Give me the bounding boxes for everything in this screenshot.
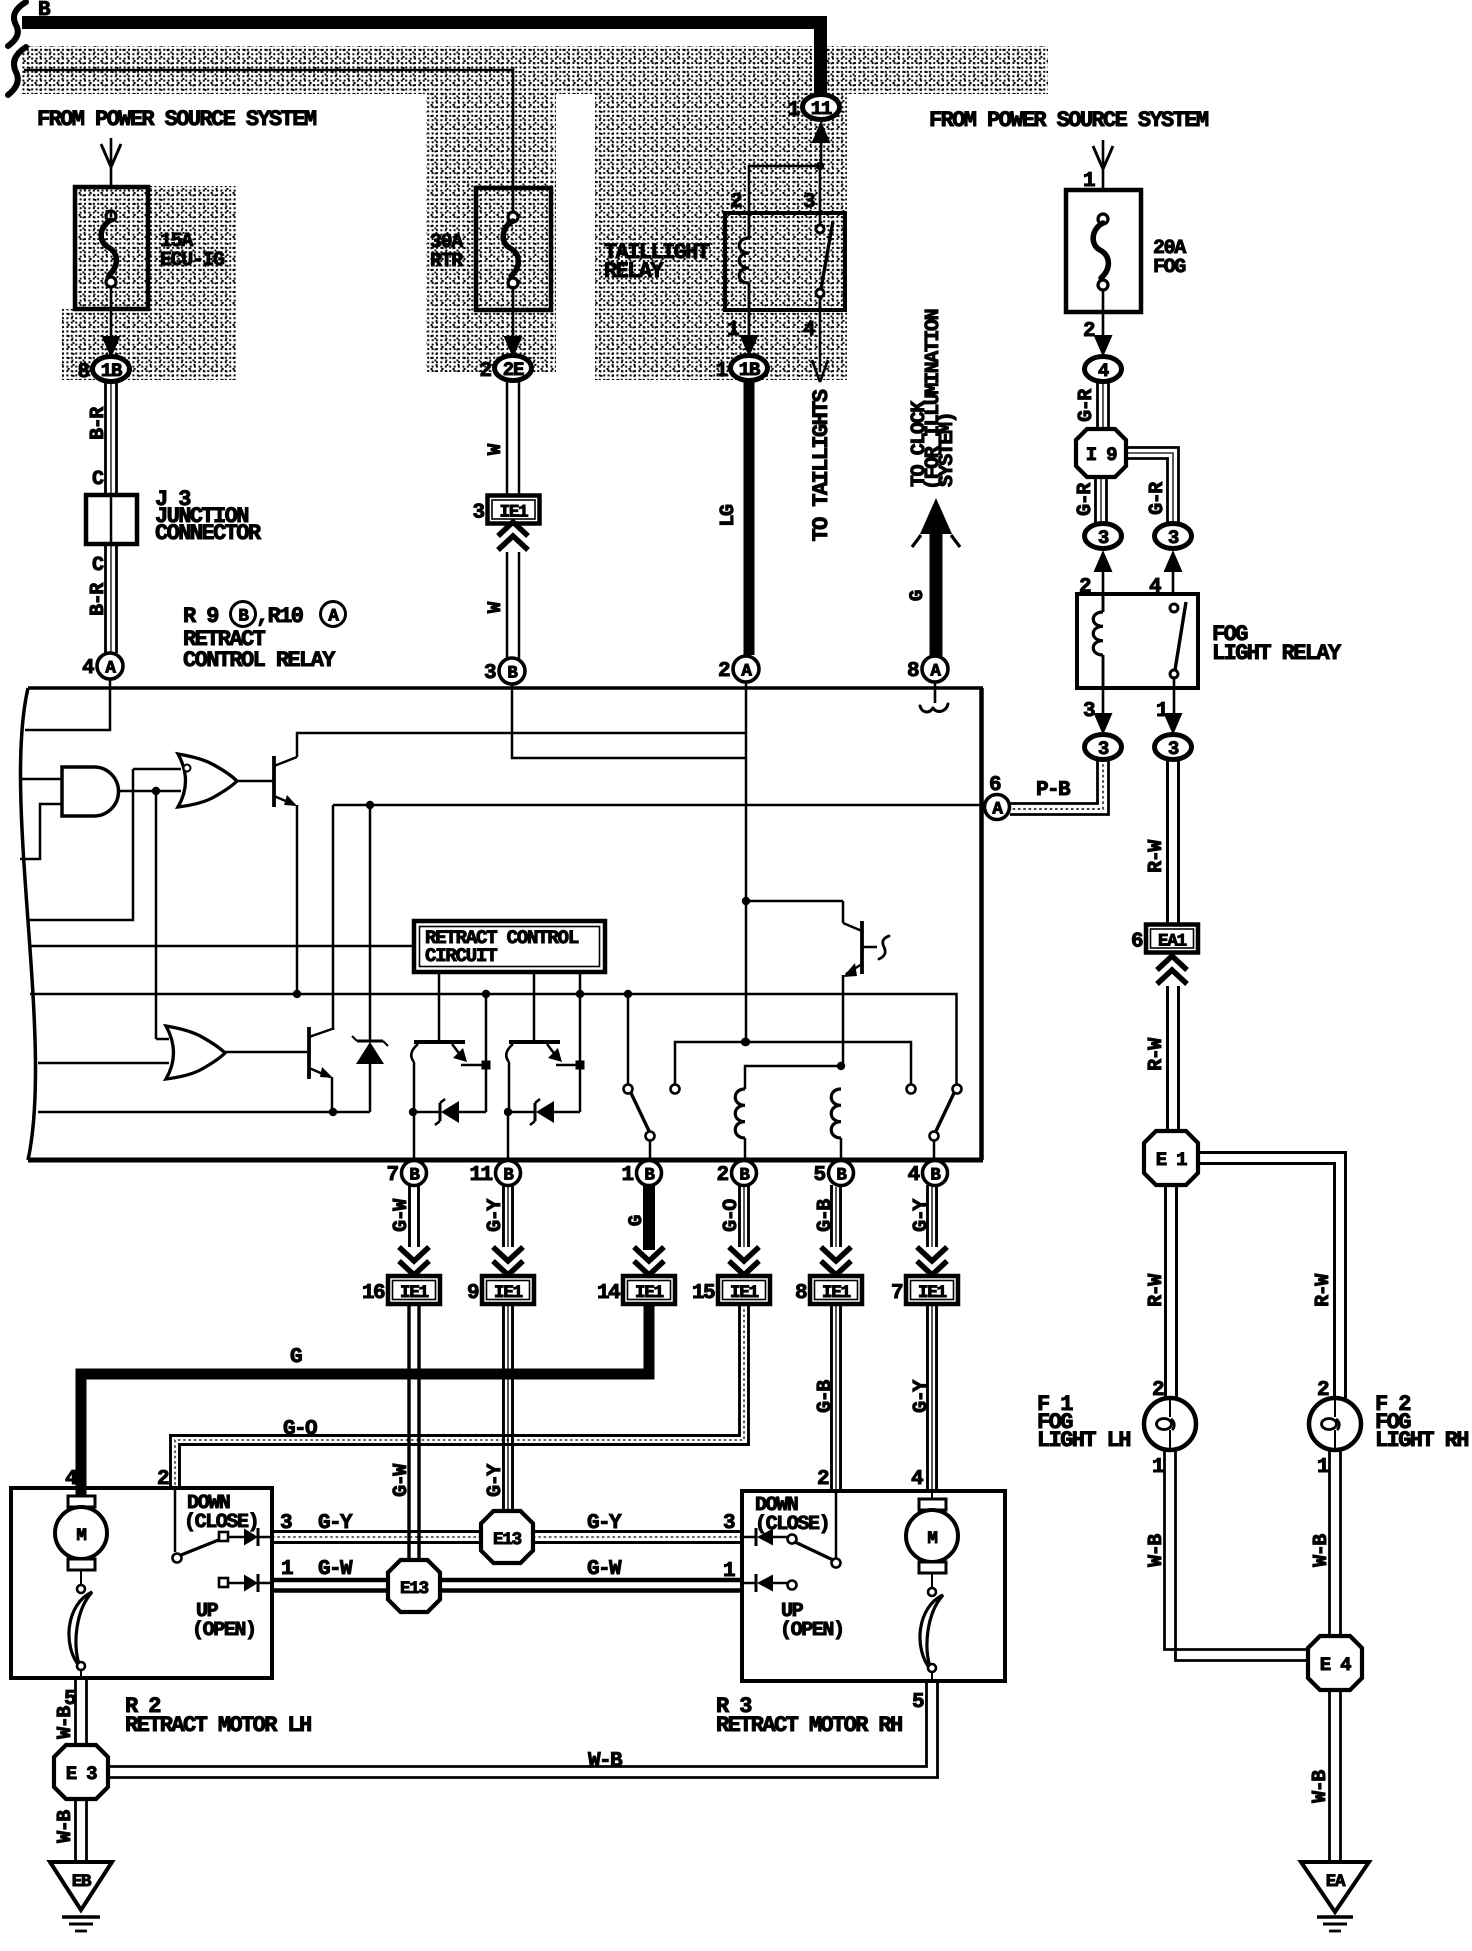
node taillight pin3 junction: [816, 162, 824, 170]
svg-text:LG: LG: [717, 504, 740, 527]
connector 16 IE1: [388, 1276, 440, 1304]
svg-text:E13: E13: [493, 1530, 522, 1550]
svg-text:W-B: W-B: [54, 1810, 77, 1843]
wire G-W IE1 to E13: [407, 1304, 410, 1560]
wire pin5 LH to E3: [74, 1678, 77, 1746]
wire to taillight relay coil pin 2: [749, 166, 820, 214]
wire R-W to fog light LH: [1164, 1185, 1167, 1398]
svg-text:4: 4: [803, 319, 815, 342]
node rail dot upper: [742, 897, 750, 905]
svg-text:LIGHT LH: LIGHT LH: [1037, 1428, 1130, 1453]
fog light relay box: [1077, 594, 1198, 688]
svg-text:EA: EA: [1326, 1872, 1346, 1892]
arrow up into connector 11: [812, 121, 831, 143]
svg-text:W: W: [484, 443, 506, 455]
svg-text:FROM POWER SOURCE SYSTEM: FROM POWER SOURCE SYSTEM: [929, 108, 1209, 133]
arrow up into connector 3 right: [1164, 550, 1183, 572]
motor LH position cam: [80, 1570, 82, 1585]
node coil rail dot: [837, 1062, 845, 1070]
svg-text:16: 16: [362, 1282, 385, 1305]
node bus dot cell1: [482, 990, 490, 998]
wire W-B fog RH to E4: [1328, 1450, 1331, 1636]
connector 9 IE1: [482, 1276, 534, 1304]
svg-text:2: 2: [817, 1468, 829, 1491]
transistor Q4 cell2: [509, 1040, 560, 1044]
svg-text:R-W: R-W: [1312, 1274, 1335, 1307]
wire rcc output 3: [579, 972, 582, 1065]
arrow into connector 4: [1094, 335, 1113, 357]
svg-text:IE1: IE1: [918, 1283, 947, 1303]
switch up open LH: [219, 1578, 228, 1587]
wire rcc left input: [30, 945, 414, 948]
svg-text:E 3: E 3: [66, 1763, 97, 1785]
connector 15 IE1: [718, 1276, 770, 1304]
relay coil 2: [831, 1089, 841, 1138]
ground EB: [50, 1862, 112, 1910]
wire B thick bus to connector 11: [22, 23, 821, 94]
wire G-Y to motor RH pin4: [926, 1304, 929, 1491]
wire rcc output 1: [438, 972, 441, 1040]
svg-text:2E: 2E: [503, 359, 524, 381]
wire G-Y IE1 to E13: [502, 1304, 505, 1512]
wire fuse 20A to connector 4: [1102, 289, 1105, 337]
wire thin power feed to 30A fuse: [24, 70, 513, 212]
svg-text:5: 5: [912, 1691, 924, 1714]
fuse 20A FOG: [1066, 190, 1141, 312]
svg-text:W: W: [484, 601, 506, 613]
svg-text:LIGHT RH: LIGHT RH: [1375, 1428, 1468, 1453]
pin 2 B: [732, 1161, 757, 1186]
svg-text:G-W: G-W: [390, 1199, 413, 1232]
wire G-O to motor LH pin2: [171, 1304, 740, 1488]
wire fog relay pin1 down: [1173, 688, 1176, 714]
arrow from power source into 15A fuse: [110, 138, 113, 188]
svg-text:3: 3: [1168, 527, 1179, 549]
svg-text:EB: EB: [72, 1872, 92, 1892]
zener diode cell1: [409, 1108, 417, 1116]
wire G thick to motor LH pin4: [81, 1304, 649, 1498]
svg-text:4: 4: [65, 1468, 77, 1491]
svg-text:7: 7: [386, 1164, 398, 1187]
zener diode upper: [369, 805, 372, 1042]
svg-text:3: 3: [1098, 738, 1109, 760]
wire cell1 to pin 7B: [413, 1112, 416, 1160]
svg-text:M: M: [927, 1529, 937, 1549]
svg-text:IE1: IE1: [822, 1283, 851, 1303]
wire W upper: [506, 380, 509, 496]
svg-text:8: 8: [795, 1282, 807, 1305]
wire fog relay pin3 down: [1102, 688, 1105, 714]
connector E 3 octagon: [54, 1745, 108, 1799]
and gate U1: [62, 767, 119, 816]
svg-text:1: 1: [723, 1560, 735, 1583]
connector 2E pin 2: [495, 356, 532, 381]
svg-text:1: 1: [727, 319, 739, 342]
retract control circuit box: [414, 921, 605, 972]
node and-or junction: [152, 787, 160, 795]
shading halftone taillight relay block: [595, 92, 847, 380]
svg-text:W-B: W-B: [1309, 1770, 1332, 1803]
svg-text:ECU-IG: ECU-IG: [160, 249, 225, 272]
svg-text:4: 4: [907, 1164, 919, 1187]
connector E13 upper: [481, 1511, 533, 1563]
svg-text:2: 2: [716, 1164, 728, 1187]
svg-text:RETRACT MOTOR RH: RETRACT MOTOR RH: [716, 1713, 902, 1738]
switch left in relay: [627, 994, 630, 1085]
wire bus 994: [30, 994, 957, 1085]
pin 4 B: [923, 1161, 948, 1186]
svg-text:3: 3: [1168, 738, 1179, 760]
wire or3 output: [224, 1051, 307, 1054]
wire G-Y pin11 to IE1 9: [502, 1185, 505, 1247]
svg-text:2: 2: [1083, 320, 1095, 343]
wire fuse to connector 1B: [110, 212, 113, 217]
node bus dot switch left: [624, 990, 632, 998]
svg-text:15: 15: [692, 1282, 715, 1305]
switch right in relay: [953, 1085, 962, 1094]
pin 5 B: [829, 1161, 854, 1186]
wire P-B to pin 6A: [1010, 759, 1098, 804]
arrow from power source into 20A fuse: [1102, 140, 1105, 190]
junction connector J3: [86, 495, 137, 544]
continuation brace top: [8, 2, 26, 46]
node zener rail dot: [366, 801, 374, 809]
contact open right: [907, 1085, 916, 1094]
svg-text:CONTROL RELAY: CONTROL RELAY: [183, 648, 336, 673]
pin 3 B of retract control relay: [499, 658, 525, 684]
svg-text:1: 1: [1317, 1456, 1329, 1479]
retract motor RH box R3: [742, 1491, 1005, 1681]
wire W lower: [506, 552, 509, 659]
svg-text:IE1: IE1: [635, 1283, 664, 1303]
wire fuse 30A to connector 2E: [512, 286, 515, 337]
retract control relay box outline: [28, 686, 983, 690]
connector 3 lower right: [1155, 735, 1192, 760]
svg-text:W-B: W-B: [1310, 1534, 1333, 1567]
or gate U3: [166, 1026, 225, 1079]
connector 3 fog relay pin2: [1085, 524, 1122, 549]
shading halftone 30A fuse block: [426, 76, 556, 372]
pin 2 A of retract control relay: [733, 656, 759, 682]
svg-text:G-R: G-R: [1074, 483, 1097, 516]
wire B-R upper: [104, 381, 107, 495]
svg-text:M: M: [76, 1526, 86, 1546]
fog light relay coil: [1102, 594, 1105, 612]
svg-text:2: 2: [157, 1468, 169, 1491]
taillight relay box: [725, 213, 845, 310]
wire pin6A rail: [333, 804, 980, 807]
svg-text:FROM POWER SOURCE SYSTEM: FROM POWER SOURCE SYSTEM: [37, 107, 317, 132]
transistor Q3 cell1: [414, 1040, 465, 1044]
svg-text:RELAY: RELAY: [604, 259, 664, 284]
svg-text:C: C: [92, 554, 104, 577]
svg-text:W-B: W-B: [1145, 1534, 1168, 1567]
continuation brace second: [8, 47, 26, 95]
svg-text:3: 3: [484, 662, 496, 685]
node bus dot rcc3: [576, 990, 584, 998]
arrow chevron up below EA1: [1157, 970, 1187, 984]
svg-text:G-Y: G-Y: [484, 1199, 507, 1232]
svg-text:G-O: G-O: [283, 1418, 317, 1441]
node rail dot lower: [742, 1038, 750, 1046]
connector 6 EA1: [1146, 925, 1198, 953]
wire B-R lower: [104, 544, 107, 653]
svg-text:G: G: [625, 1215, 647, 1226]
svg-text:RETRACT MOTOR LH: RETRACT MOTOR LH: [125, 1713, 311, 1738]
svg-text:8: 8: [907, 660, 919, 683]
wire or3 bottom input: [38, 1062, 169, 1065]
connector 3 IE1 upper: [488, 496, 540, 524]
switch up open RH: [742, 1582, 756, 1585]
or gate U2: [178, 754, 237, 807]
svg-text:IE1: IE1: [494, 1283, 523, 1303]
svg-text:1: 1: [787, 99, 799, 122]
svg-text:3: 3: [1083, 700, 1095, 723]
wire R-W upper: [1166, 759, 1169, 925]
wire or3 top input: [156, 1038, 169, 1041]
wire G-R I9 left branch: [1094, 477, 1097, 524]
svg-text:11: 11: [811, 98, 832, 120]
svg-text:G-Y: G-Y: [587, 1512, 622, 1535]
wire rcc output 2: [533, 972, 536, 1040]
fuse 15A ECU-IG: [75, 187, 148, 309]
svg-text:14: 14: [597, 1282, 620, 1305]
pin 11 B: [496, 1161, 521, 1186]
svg-text:B-R: B-R: [87, 407, 110, 440]
svg-text:6: 6: [1131, 931, 1143, 954]
transistor Q1: [272, 756, 276, 807]
arrow into 1B taillight: [740, 335, 759, 357]
motor RH: [919, 1499, 946, 1510]
wire W-B E3 to motor RH pin5: [108, 1681, 927, 1767]
wire G thick pin1 to IE1 14: [643, 1185, 655, 1250]
svg-text:8: 8: [77, 361, 89, 384]
svg-text:R 9: R 9: [183, 604, 218, 629]
svg-text:CONNECTOR: CONNECTOR: [155, 521, 262, 546]
connector E13 lower: [388, 1560, 440, 1612]
svg-text:IE1: IE1: [400, 1283, 429, 1303]
svg-text:C: C: [92, 468, 104, 491]
wire Q2 collector vertical: [332, 805, 335, 1030]
svg-text:R-W: R-W: [1145, 1274, 1168, 1307]
shading halftone top band: [20, 46, 1048, 94]
svg-text:G-Y: G-Y: [910, 1380, 933, 1413]
svg-text:1B: 1B: [739, 359, 760, 381]
svg-text:E 1: E 1: [1156, 1149, 1187, 1171]
svg-text:B-R: B-R: [87, 583, 110, 616]
svg-text:(OPEN): (OPEN): [192, 1619, 256, 1642]
connector 1B pin 8: [93, 357, 130, 382]
svg-text:TO TAILLIGHTS: TO TAILLIGHTS: [809, 389, 834, 541]
svg-text:W-B: W-B: [54, 1706, 77, 1739]
svg-text:1: 1: [715, 360, 727, 383]
svg-text:1: 1: [1156, 700, 1168, 723]
svg-text:E13: E13: [400, 1579, 429, 1599]
svg-text:FOG: FOG: [1153, 256, 1186, 279]
svg-text:G-O: G-O: [720, 1199, 743, 1232]
pin 7 B: [402, 1161, 427, 1186]
svg-text:1: 1: [1152, 1456, 1164, 1479]
connector E 1 octagon: [1144, 1131, 1198, 1185]
connector 4 fog: [1085, 357, 1122, 382]
arrow into connector 3 lower right: [1164, 713, 1183, 735]
svg-text:2: 2: [479, 360, 491, 383]
retract motor LH box R2: [11, 1488, 272, 1678]
wire LG thick: [744, 380, 755, 655]
wire to taillights with arrow: [819, 297, 822, 372]
svg-text:3: 3: [472, 502, 484, 525]
wire or1 output to Q1: [236, 780, 273, 783]
connector 3 lower left: [1085, 735, 1122, 760]
wire R-W to fog light RH: [1198, 1153, 1346, 1399]
connector 8 IE1: [810, 1276, 862, 1304]
shading halftone 15A fuse block: [75, 186, 236, 309]
taillight relay switch: [816, 225, 824, 233]
arrow into connector 3 lower left: [1094, 713, 1113, 735]
svg-text:(OPEN): (OPEN): [780, 1619, 844, 1642]
node emitter zener dot: [329, 1108, 337, 1116]
zener diode cell2: [504, 1108, 512, 1116]
pin 1 B: [637, 1161, 662, 1186]
wire G-Y pin4 to IE1 7: [926, 1185, 929, 1247]
motor LH: [68, 1496, 95, 1507]
svg-text:3: 3: [1098, 527, 1109, 549]
svg-text:G-R: G-R: [1146, 482, 1169, 515]
relay coil 1: [735, 1089, 745, 1138]
wire G-B to motor RH pin2: [830, 1304, 833, 1491]
wire G-R I9 right branch: [1126, 448, 1179, 525]
fog light relay switch: [1170, 604, 1178, 612]
svg-text:4: 4: [1098, 360, 1109, 382]
svg-text:G-Y: G-Y: [910, 1199, 933, 1232]
svg-text:9: 9: [467, 1282, 479, 1305]
transistor Q2: [307, 1027, 311, 1079]
connector 1B taillight pin 1: [731, 356, 768, 381]
connector 11 pin 1: [803, 95, 840, 120]
svg-text:G-W: G-W: [390, 1464, 413, 1497]
svg-text:G: G: [906, 590, 928, 601]
svg-text:,R10: ,R10: [256, 604, 303, 629]
wire pin3B to node: [512, 685, 746, 758]
wire coil pin1 to 1B: [748, 312, 751, 336]
svg-text:1: 1: [621, 1164, 633, 1187]
wire zener bottom rail: [38, 1111, 370, 1114]
taillight relay coil: [748, 214, 751, 238]
svg-text:G-R: G-R: [1075, 389, 1098, 422]
svg-text:G-Y: G-Y: [484, 1464, 507, 1497]
svg-text:LIGHT RELAY: LIGHT RELAY: [1212, 641, 1342, 666]
svg-text:6: 6: [989, 774, 1001, 797]
svg-text:G: G: [290, 1346, 302, 1369]
svg-text:4: 4: [82, 657, 94, 680]
svg-text:EA1: EA1: [1158, 932, 1187, 952]
svg-text:7: 7: [891, 1282, 903, 1305]
ground EA: [1301, 1862, 1369, 1912]
arrow chevron up below IE1: [498, 536, 528, 550]
connector E 4 octagon: [1308, 1636, 1362, 1690]
svg-text:W-B: W-B: [588, 1750, 623, 1773]
pin 6 A of retract control relay: [985, 795, 1010, 820]
wire R-W middle: [1166, 986, 1169, 1131]
wire G-W pin7 to IE1 16: [408, 1185, 411, 1247]
svg-text:IE1: IE1: [730, 1283, 759, 1303]
svg-text:CIRCUIT: CIRCUIT: [425, 945, 497, 967]
wire pin4A into relay: [25, 680, 110, 730]
node bus dot Q1: [293, 990, 301, 998]
svg-text:R-W: R-W: [1145, 840, 1168, 873]
wire G-R to I9: [1096, 381, 1099, 429]
connector 14 IE1: [623, 1276, 675, 1304]
svg-text:3: 3: [723, 1512, 735, 1535]
wire cell2 to pin 11B: [507, 1112, 510, 1160]
connector I 9 octagon: [1076, 429, 1126, 477]
pin 8 A of retract control relay: [922, 656, 948, 682]
svg-text:4: 4: [911, 1468, 923, 1491]
transistor Q5 right: [860, 921, 864, 974]
arrow into 1B: [102, 336, 121, 358]
contact open left: [671, 1085, 680, 1094]
svg-text:G-B: G-B: [814, 1380, 837, 1413]
wire junction down to or gate 2: [155, 791, 158, 1039]
wire to taillight relay switch pin 3: [819, 166, 822, 225]
wire W-B fog LH to E4: [1165, 1450, 1309, 1650]
wire and gate input 2: [20, 804, 62, 859]
wire pin8A stub with hook: [934, 683, 937, 703]
svg-text:G-W: G-W: [587, 1558, 622, 1581]
svg-text:R-W: R-W: [1145, 1038, 1168, 1071]
svg-text:G-W: G-W: [318, 1558, 353, 1581]
wire and gate input 1: [19, 778, 62, 781]
svg-text:1B: 1B: [101, 360, 122, 382]
arrow up into connector 3 left: [1094, 550, 1113, 572]
svg-text:2: 2: [730, 191, 742, 214]
svg-text:5: 5: [813, 1164, 825, 1187]
svg-text:E 4: E 4: [1320, 1654, 1351, 1676]
fuse 30A RTR: [476, 188, 551, 310]
svg-text:G-B: G-B: [814, 1199, 837, 1232]
node coil bus dot: [741, 1038, 749, 1046]
svg-text:3: 3: [803, 191, 815, 214]
wire W-B to ground EA: [1328, 1690, 1331, 1862]
wire coil rail: [745, 1066, 841, 1089]
svg-text:1: 1: [281, 1558, 293, 1581]
connector 3 fog relay pin4: [1155, 524, 1192, 549]
svg-text:I 9: I 9: [1086, 444, 1117, 466]
svg-text:2: 2: [718, 660, 730, 683]
wire W-B E3 to ground EB: [74, 1799, 77, 1862]
svg-text:11: 11: [469, 1164, 492, 1187]
wire pin2A vertical rail: [745, 683, 748, 1040]
wire G-B pin5 to IE1 8: [830, 1185, 833, 1247]
svg-text:RTR: RTR: [430, 250, 463, 273]
wire and output to or gate: [119, 790, 181, 793]
pin 4 A of retract control relay: [97, 653, 123, 679]
svg-text:P-B: P-B: [1036, 779, 1071, 802]
connector 7 IE1: [906, 1276, 958, 1304]
wire or gate top input: [28, 769, 181, 920]
wire G-O pin2 to IE1 15: [738, 1185, 741, 1247]
arrow G to clock thick: [930, 520, 943, 657]
wire contact bus upper: [675, 1042, 911, 1085]
svg-text:SYSTEM): SYSTEM): [936, 413, 959, 487]
arrow into 2E: [504, 336, 523, 358]
motor RH position cam: [931, 1573, 933, 1588]
